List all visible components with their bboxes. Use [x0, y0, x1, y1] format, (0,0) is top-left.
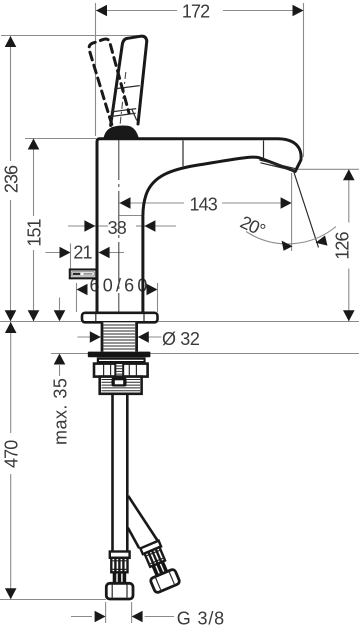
- svg-text:236: 236: [2, 165, 22, 193]
- svg-text:470: 470: [2, 440, 22, 468]
- dimension G 3/8: [71, 602, 224, 629]
- dimension max. 35: [51, 298, 71, 446]
- left supply pipe: [113, 394, 128, 552]
- 20 degree slant line: [294, 171, 319, 248]
- lever handle solid (closed position): [110, 36, 147, 125]
- dimension 60/60: [77, 275, 158, 312]
- svg-text:143: 143: [190, 195, 218, 215]
- extension line aerator vertical (for 143 and 20 deg): [291, 173, 293, 251]
- extension line top of handle (for 236): [1, 35, 138, 37]
- dimension 21: [46, 243, 125, 270]
- dimension 172: [96, 1, 304, 21]
- threaded shank: [102, 322, 137, 351]
- left hose fitting collar: [110, 552, 130, 558]
- handle pivot dome: [104, 126, 139, 138]
- left hose G3/8 nut: [106, 583, 133, 599]
- 20 degree arc: [246, 227, 336, 244]
- svg-text:38: 38: [108, 218, 127, 238]
- countertop top line: [0, 321, 359, 323]
- svg-text:21: 21: [73, 243, 92, 263]
- svg-text:Ø 32: Ø 32: [162, 329, 200, 349]
- countertop underside line: [51, 353, 359, 355]
- svg-text:126: 126: [332, 231, 352, 259]
- logo plate on body: [70, 270, 97, 279]
- left hose fitting knurl: [111, 558, 127, 573]
- extension line at body top level (for 151): [25, 138, 96, 140]
- svg-text:G 3/8: G 3/8: [177, 609, 224, 629]
- left hose crimp: [113, 572, 127, 583]
- svg-text:max. 35: max. 35: [51, 378, 71, 445]
- mounting nut body: [94, 364, 148, 377]
- aerator boundary line: [263, 141, 265, 159]
- dimension 151: [25, 139, 45, 322]
- dimension diameter 32: [78, 329, 200, 349]
- aerator face lines: [260, 160, 297, 171]
- 20 degree label: [237, 212, 268, 241]
- svg-text:151: 151: [25, 218, 45, 246]
- faucet body and spout outline: [97, 139, 301, 314]
- dimension 38: [68, 216, 176, 238]
- diagonal hose: [128, 496, 158, 548]
- svg-text:172: 172: [182, 1, 210, 21]
- threaded rod through nut: [115, 363, 123, 377]
- rubber washer: [88, 352, 151, 358]
- body centerline: [118, 140, 120, 320]
- extension line left vertical at body left edge (for 172): [95, 3, 97, 136]
- extension line right vertical at spout tip (for 172): [303, 3, 305, 157]
- mounting nut top band: [97, 357, 146, 363]
- dimension 470: [2, 322, 22, 599]
- diagonal hose fitting (rotated): [137, 539, 180, 593]
- lower threaded block: [100, 377, 142, 394]
- handle axis dash-dot line: [119, 72, 126, 133]
- dimension 126: [332, 169, 354, 321]
- dimension 143: [120, 195, 292, 215]
- extension line aerator level right (for 126): [296, 168, 359, 170]
- escutcheon base plate: [82, 313, 158, 323]
- spout joint line: [182, 141, 184, 167]
- hose end reference line: [0, 599, 106, 601]
- dimension 236: [2, 36, 22, 321]
- lever handle dashed (open position): [89, 39, 129, 125]
- 20 degree arc arrowheads: [282, 236, 328, 251]
